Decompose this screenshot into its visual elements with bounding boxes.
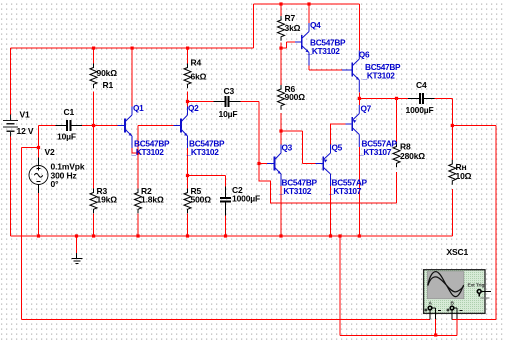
svg-text:1000µF: 1000µF bbox=[406, 105, 434, 115]
wire: Q5 emitter riser to Q7 base row bbox=[331, 124, 346, 145]
wire: battery column top bbox=[10, 48, 12, 115]
resistor R5 bbox=[184, 189, 191, 214]
wire: R2 bottom lead bbox=[137, 214, 139, 237]
svg-text:_KT3102: _KT3102 bbox=[278, 186, 312, 196]
transistor Q4 (NPN BC547BP) bbox=[295, 23, 309, 66]
wire: battery column bottom to ground rail bbox=[10, 137, 12, 237]
svg-text:500Ω: 500Ω bbox=[191, 195, 212, 205]
wire: R8 top lead to output node bbox=[396, 98, 398, 142]
wire: input column x=21.5 down to bottom row bbox=[21, 148, 23, 320]
capacitor C4 bbox=[408, 93, 435, 104]
wire: scope ground column from ground rail bbox=[339, 236, 341, 336]
junction output node at C4 right / RH top bbox=[451, 124, 454, 127]
wire: feedback jog from Q3 base node bbox=[259, 164, 397, 204]
wire: C1 row from input node to node A bbox=[39, 125, 94, 127]
resistor R1 bbox=[90, 64, 97, 89]
transistor Q7 (PNP BC557AP) bbox=[345, 105, 359, 147]
wire: Q3 collector red bbox=[280, 131, 282, 145]
svg-text:6kΩ: 6kΩ bbox=[191, 71, 207, 81]
scope Ext Trig terminal bbox=[477, 290, 491, 298]
wire: Q4 emitter to Q6 base row bbox=[309, 66, 342, 71]
wire: R8 bottom lead bbox=[396, 172, 398, 203]
resistor R7 bbox=[278, 16, 285, 41]
wire: Q6 emitter red to output node bbox=[358, 92, 360, 98]
junction R6 bottom / Q3 collector / Q5 base branch bbox=[279, 129, 282, 132]
transistor Q2 (NPN BC547BP) bbox=[174, 107, 188, 149]
capacitor C2 vertical bbox=[220, 187, 231, 216]
resistor R3 bbox=[90, 189, 97, 214]
svg-text:R1: R1 bbox=[103, 80, 114, 90]
svg-text:1.8kΩ: 1.8kΩ bbox=[141, 195, 164, 205]
svg-text:V2: V2 bbox=[45, 147, 56, 157]
resistor R6 bbox=[278, 85, 285, 110]
svg-text:_KT3102: _KT3102 bbox=[131, 147, 165, 157]
wire: Q1 collector to rail B bbox=[131, 48, 133, 107]
svg-text:_KT3107: _KT3107 bbox=[328, 186, 362, 196]
junction ground rail at ground symbol bbox=[75, 234, 78, 237]
wire: RH leads bbox=[451, 126, 453, 237]
wire: bottom input row to scope A+ bbox=[22, 319, 431, 321]
junction Q2 collector / R4 / C3 bbox=[186, 100, 189, 103]
svg-text:10µF: 10µF bbox=[57, 132, 76, 142]
svg-text:Q7: Q7 bbox=[361, 104, 372, 114]
wire: Q1 base lead red bbox=[94, 125, 118, 127]
svg-text:10Ω: 10Ω bbox=[456, 171, 472, 181]
wire: R4 leads column x=187.5 bbox=[187, 48, 189, 102]
svg-text:R7: R7 bbox=[285, 13, 296, 23]
svg-text:V1: V1 bbox=[20, 110, 31, 120]
wire: R7 top lead from top rail bbox=[280, 4, 282, 48]
resistor R2 bbox=[135, 189, 142, 214]
wire: +12V rail B from battery top across to riser bbox=[11, 47, 254, 49]
junction ground rail at V2 bbox=[37, 234, 40, 237]
resistor RH load bbox=[449, 160, 456, 185]
svg-text:Q2: Q2 bbox=[188, 103, 199, 113]
wire: R1 branch leads on column x=93.5 bbox=[93, 48, 95, 126]
svg-text:Q3: Q3 bbox=[282, 143, 293, 153]
scope channel B terminal bbox=[447, 301, 463, 320]
wire: C2 bottom lead to ground rail bbox=[225, 216, 227, 237]
svg-text:_KT3102: _KT3102 bbox=[186, 147, 220, 157]
svg-text:C1: C1 bbox=[64, 107, 75, 117]
transistor Q6 (NPN BC547BP) bbox=[342, 51, 359, 93]
battery V1 bbox=[3, 115, 18, 137]
wire: output node row to right edge column bbox=[452, 126, 496, 320]
junction ground rail at scope ground column bbox=[338, 234, 341, 237]
junction ground rail at Q7 collector bbox=[358, 234, 361, 237]
junction ground rail at Q3 emitter bbox=[279, 234, 282, 237]
junction on rail B at R4 bbox=[186, 47, 189, 50]
wire: scope ground bottom row bbox=[340, 335, 457, 337]
wire: Q3 base lead red bbox=[259, 163, 267, 165]
junction on rail B at R1 bbox=[92, 47, 95, 50]
wire: C3 output column down to Q3 base node bbox=[258, 102, 260, 164]
wire: scope B+ row to right edge column bbox=[452, 319, 496, 321]
ground symbol bbox=[72, 236, 83, 263]
junction ground rail at R5 bbox=[186, 234, 189, 237]
junction R7 bottom / R6 top / Q4 base jog bbox=[279, 47, 282, 50]
svg-text:12 V: 12 V bbox=[17, 126, 34, 136]
svg-text:10µF: 10µF bbox=[219, 109, 238, 119]
capacitor C1 bbox=[56, 120, 83, 131]
wire: scope B- drop bbox=[456, 319, 458, 336]
wire: output row through C4 bbox=[359, 98, 452, 125]
wire: Q1 emitter jog to R2 column bbox=[132, 148, 138, 153]
svg-text:Q6: Q6 bbox=[359, 50, 370, 60]
junction input node at V2 top bbox=[37, 146, 40, 149]
wire: Q6 collector red to top rail corner bbox=[358, 4, 360, 51]
junction output node at Q6/Q7 emitters bbox=[358, 97, 361, 100]
svg-text:1000µF: 1000µF bbox=[232, 194, 260, 204]
wire: R6 leads bbox=[280, 48, 282, 131]
junction on top rail at Q4 collector bbox=[307, 2, 310, 5]
wire: R3 leads on column x=93.5 bbox=[93, 126, 95, 237]
wire: Q7 collector red to ground rail bbox=[358, 147, 360, 236]
junction ground rail at Q5 collector bbox=[329, 234, 332, 237]
junction output node at R8 top bbox=[395, 97, 398, 100]
wire: Q7 emitter red to output node bbox=[358, 98, 360, 105]
AC source V2 bbox=[29, 158, 48, 194]
transistor Q3 (NPN BC547BP) bbox=[267, 145, 281, 187]
wire: input branch row to feedback column bbox=[22, 147, 39, 149]
wire: Q2 emitter down to emitter node bbox=[187, 148, 189, 176]
wire: Q2 base row from R2 column bbox=[138, 126, 174, 189]
junction ground rail at C2 bbox=[224, 234, 227, 237]
svg-text:Q1: Q1 bbox=[133, 103, 144, 113]
svg-text:_KT3102: _KT3102 bbox=[307, 46, 341, 56]
junction on top rail at R7 bbox=[279, 2, 282, 5]
resistor R8 bbox=[393, 143, 400, 168]
wire: R6 node to Q5 base bbox=[281, 131, 316, 164]
resistor R4 bbox=[184, 64, 191, 89]
svg-text:_KT3102: _KT3102 bbox=[362, 70, 396, 80]
wire: R5 leads bbox=[187, 176, 189, 237]
junction Q2 emitter / R5 / C2 row bbox=[186, 174, 189, 177]
svg-text:Q5: Q5 bbox=[332, 143, 343, 153]
transistor Q5 (PNP BC557AP) bbox=[316, 145, 331, 187]
wire: scope A- drop bbox=[435, 319, 437, 336]
svg-text:3kΩ: 3kΩ bbox=[285, 23, 301, 33]
junction ground rail at R2 bbox=[136, 234, 139, 237]
transistor Q1 (NPN BC547BP) bbox=[118, 107, 133, 149]
junction Q3 base node / feedback bbox=[257, 162, 260, 165]
svg-text:280kΩ: 280kΩ bbox=[400, 151, 425, 161]
svg-text:90kΩ: 90kΩ bbox=[97, 68, 118, 78]
wire: emitter node row to C2 column bbox=[188, 176, 226, 187]
svg-text:0°: 0° bbox=[51, 179, 60, 189]
junction ground rail at R3 bbox=[92, 234, 95, 237]
svg-text:900Ω: 900Ω bbox=[285, 92, 306, 102]
scope channel A terminal bbox=[425, 301, 442, 320]
svg-text:R4: R4 bbox=[191, 58, 202, 68]
wire: Q4 collector red to top rail bbox=[308, 4, 310, 23]
wire: C3 row from Q2 collector node bbox=[188, 101, 260, 103]
wire: Q5 collector red to ground rail bbox=[330, 186, 332, 236]
svg-text:Q4: Q4 bbox=[310, 20, 321, 30]
junction on rail B at Q1 collector bbox=[131, 47, 134, 50]
svg-text:C4: C4 bbox=[416, 80, 427, 90]
svg-text:Ext Trig: Ext Trig bbox=[468, 283, 485, 289]
wire: input node column x=38.5 down to V2 and ground bbox=[38, 126, 40, 237]
junction node A: C1/R1/R3/Q1 base bbox=[92, 124, 95, 127]
wire: ground rail bbox=[11, 235, 453, 237]
wire: riser from rail B to top rail bbox=[253, 4, 255, 48]
oscilloscope XSC1 bbox=[424, 270, 485, 314]
wire: Q2 collector bbox=[187, 102, 189, 107]
svg-text:_KT3107: _KT3107 bbox=[358, 147, 392, 157]
svg-text:XSC1: XSC1 bbox=[447, 247, 469, 257]
capacitor C3 bbox=[214, 96, 241, 107]
svg-text:19kΩ: 19kΩ bbox=[97, 195, 118, 205]
svg-text:C3: C3 bbox=[224, 86, 235, 96]
wire: R7 bottom jog to Q4 base bbox=[281, 42, 295, 48]
wire: Q3 emitter red to ground rail bbox=[280, 186, 282, 236]
junction Q1 emitter jog at R2 column bbox=[136, 151, 139, 154]
wire: top rail bbox=[254, 3, 360, 5]
junction scope ground row at A- bbox=[434, 333, 437, 336]
